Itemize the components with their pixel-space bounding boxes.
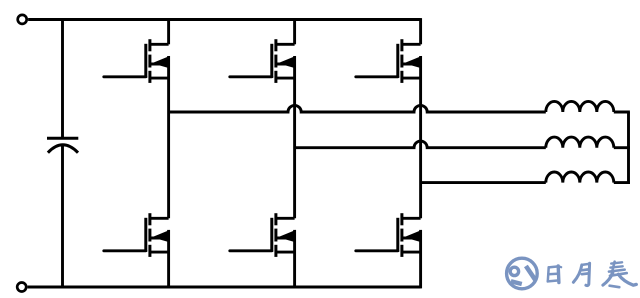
wire L2 to neutral point (614, 146, 630, 149)
wire DC+ rail to Q1 drain (167, 18, 170, 44)
wire L1 to neutral point (614, 111, 630, 114)
mosfet Q6 (low side, phase C) (356, 213, 422, 257)
wire phase C leg midpoint (Q3 source to Q6 drain) (419, 56, 422, 218)
wire phase A leg midpoint (Q1 source to Q4 drain) (167, 56, 170, 218)
wire Q5 source to DC- rail (293, 230, 296, 289)
wire phase A output (hops over legs B and C) (169, 105, 546, 112)
wire L3 to neutral point (614, 181, 630, 184)
wire Q4 source to DC- rail (167, 230, 170, 289)
mosfet Q5 (low side, phase B) (230, 213, 296, 257)
inductor L2 (phase B winding) (546, 137, 614, 148)
wire phase B leg midpoint (Q2 source to Q5 drain) (293, 56, 296, 218)
wire top DC+ rail (28, 18, 421, 21)
wire Q6 source to DC- rail (419, 230, 422, 289)
wire neutral point (star connection bar) (627, 112, 630, 184)
capacitor C1 (DC link electrolytic) (47, 138, 78, 152)
watermark logo (blue circle emblem) (507, 258, 538, 289)
inductor L3 (phase C winding) (546, 172, 614, 183)
wire capacitor C1 to DC- rail (61, 145, 64, 287)
mosfet Q1 (high side, phase A) (104, 39, 170, 83)
mosfet Q3 (high side, phase C) (356, 39, 422, 83)
inductor L1 (phase A winding) (546, 101, 614, 112)
wire phase C output (421, 181, 546, 184)
wire DC+ rail to capacitor C1 (61, 18, 64, 137)
watermark text "yue" (moon) (573, 263, 589, 285)
wire DC+ rail to Q2 drain (293, 18, 296, 44)
mosfet Q4 (low side, phase A) (104, 213, 170, 257)
wire bottom DC- rail (28, 286, 421, 289)
terminal DC- (bottom left) (17, 283, 26, 292)
watermark text "ri" (sun) (548, 266, 561, 283)
wire DC+ rail to Q3 drain (419, 18, 422, 44)
wire phase B output (hops over leg C) (295, 141, 546, 148)
terminal DC+ (top left) (18, 15, 27, 24)
mosfet Q2 (high side, phase B) (230, 39, 296, 83)
watermark text "chen" (dragon) (603, 262, 636, 288)
